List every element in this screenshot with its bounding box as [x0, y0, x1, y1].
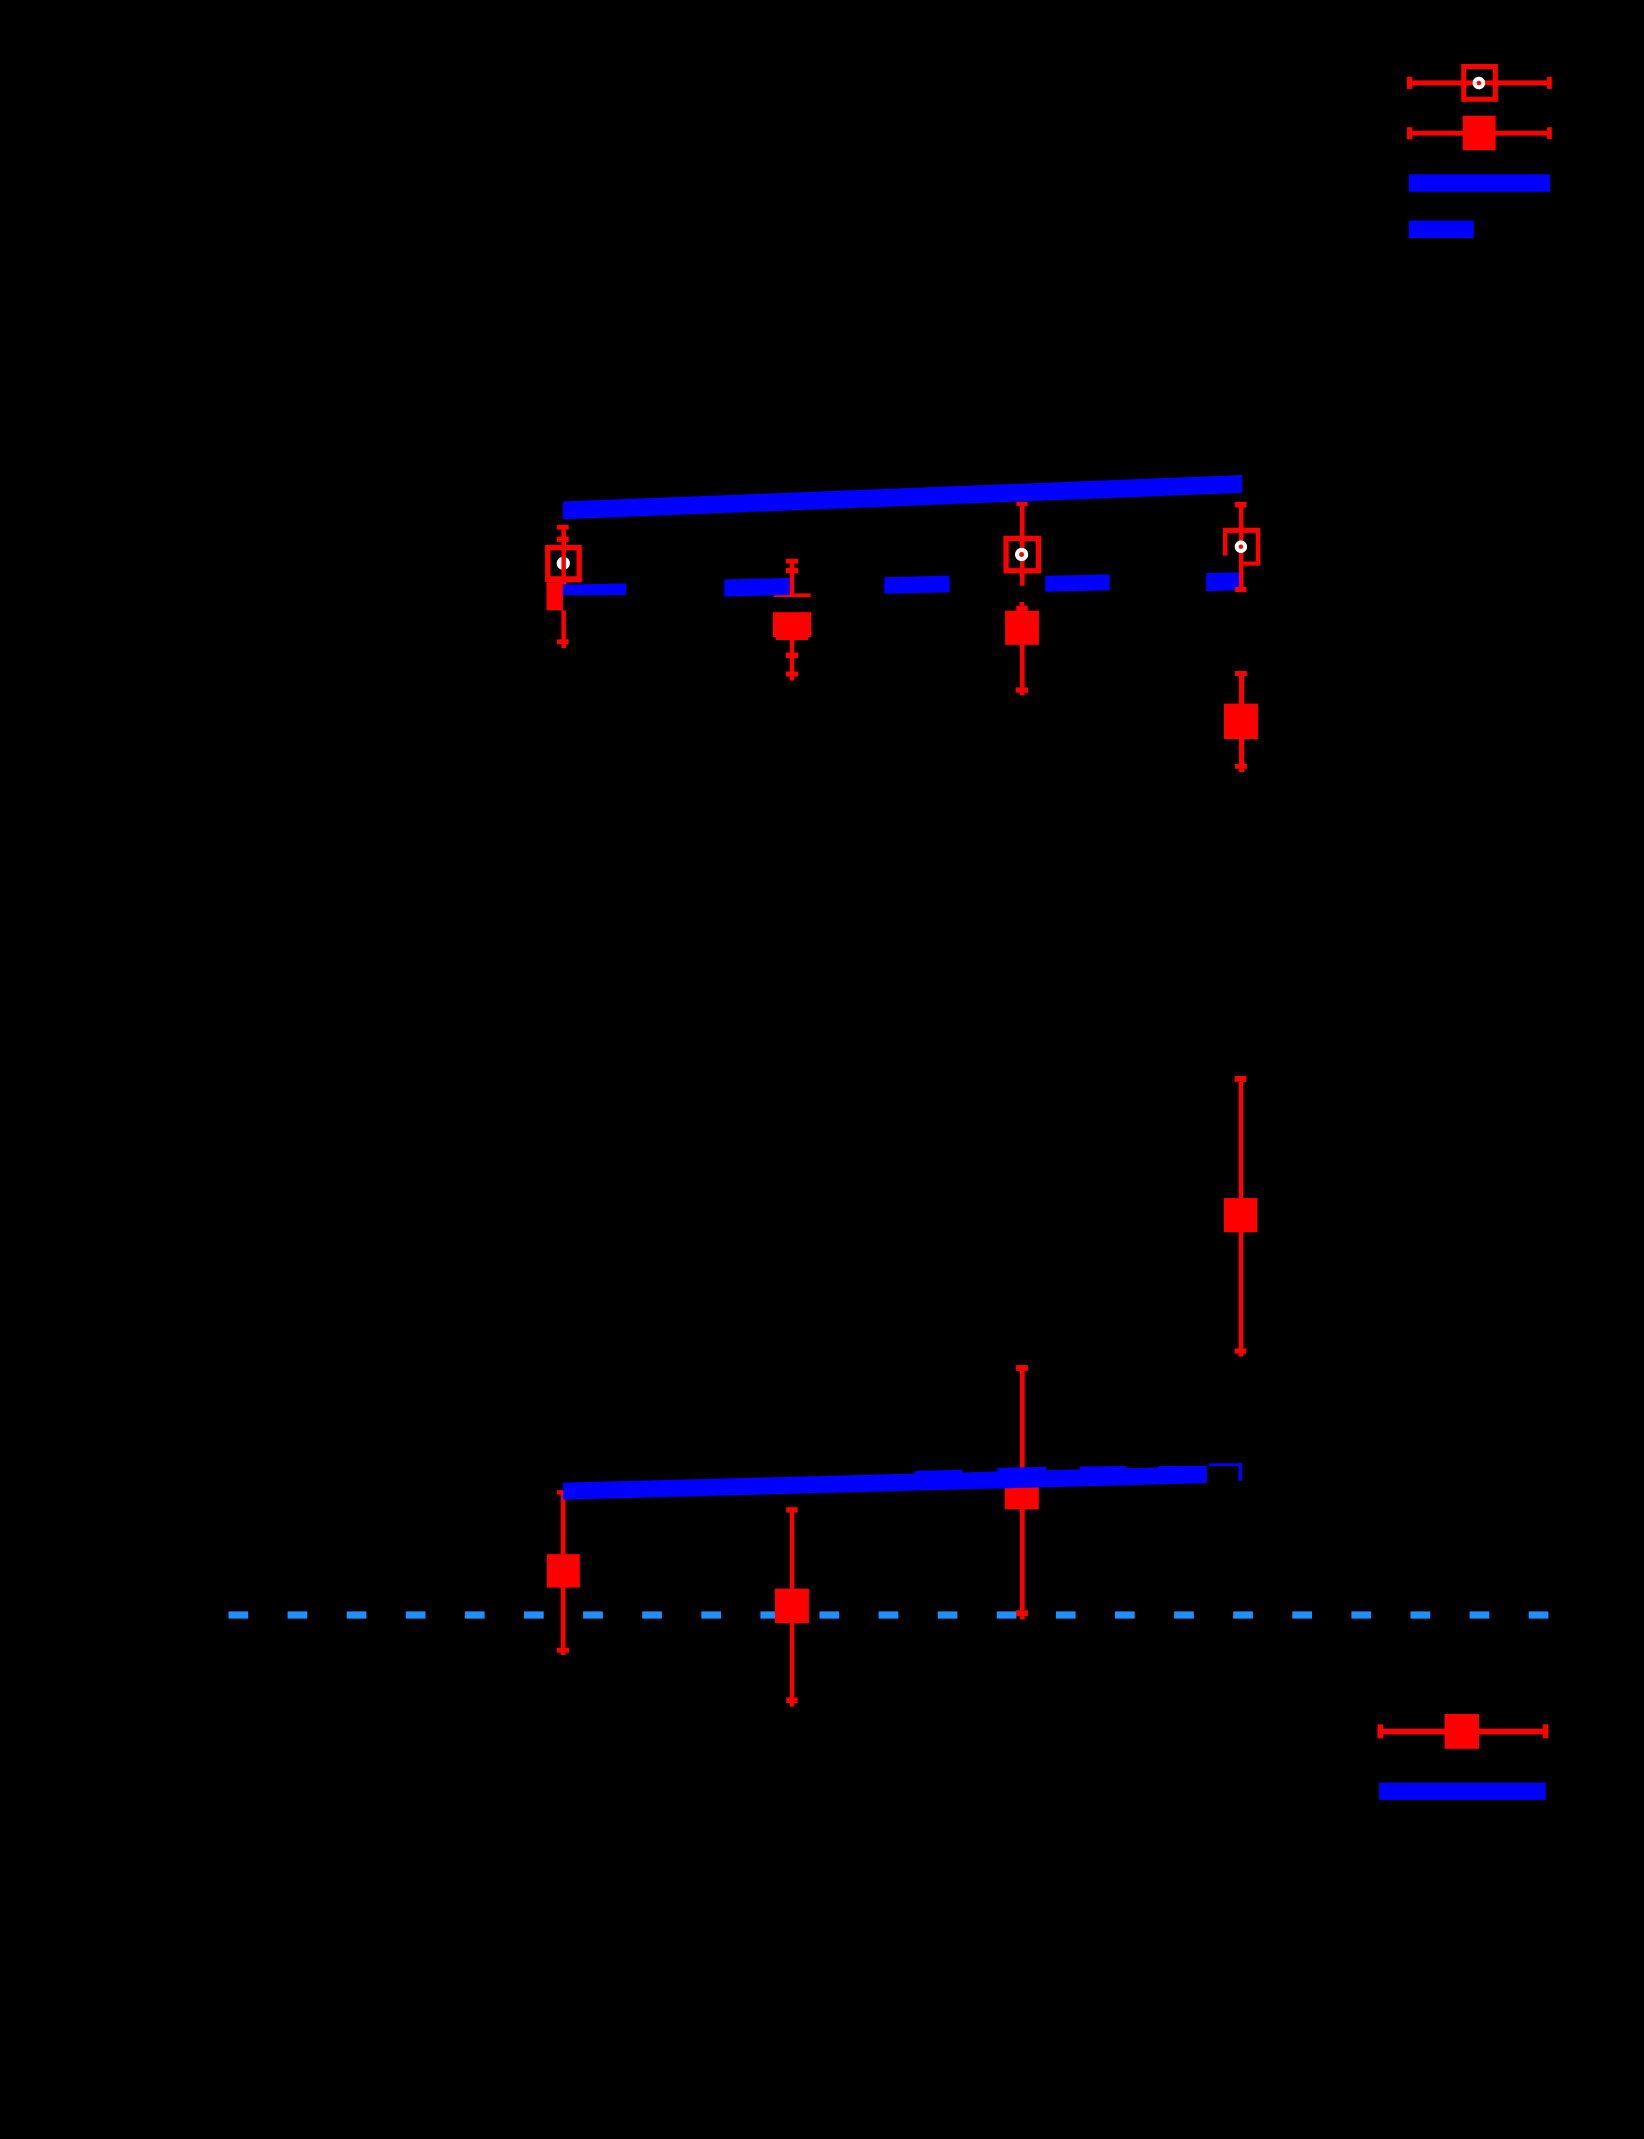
P2 top: inner bottom cap: [786, 653, 798, 658]
P1 bottom: filled square: [547, 1554, 580, 1587]
bottom solid blue line: [563, 1466, 1207, 1500]
P1 bottom: stub below cap: [561, 1653, 566, 1656]
P4 top: shaft: [1239, 507, 1243, 592]
bottom dashed blue line dash c: [1080, 1466, 1127, 1484]
P3 bottom: upper shaft: [1020, 1371, 1025, 1476]
P2 bottom: top cap: [786, 1507, 797, 1512]
legend2: left cap: [1407, 127, 1412, 139]
legend4: dashed blue line sample: [1409, 221, 1474, 239]
P4 top: sys-box right edge: [1256, 533, 1260, 566]
P2 top: filled square bottom strip: [776, 637, 808, 640]
legend1: open box marker: [1461, 64, 1498, 102]
P4 top: bottom cap over dash: [1235, 587, 1247, 592]
P4 top: sys-box top edge: [1223, 528, 1260, 533]
P3 bottom: bottom cap: [1016, 1610, 1028, 1616]
P2 bottom: upper shaft: [790, 1513, 794, 1589]
P2 bottom: bottom cap: [786, 1697, 797, 1703]
P4 top: filled-point lower shaft: [1239, 739, 1244, 764]
P4 top: top cap: [1235, 502, 1247, 507]
P1 top: sys-error open box: [545, 545, 582, 582]
P3 top: outer top cap: [1016, 502, 1027, 506]
P2 top: filled square: [773, 612, 811, 637]
P2 bottom: filled square: [775, 1589, 809, 1624]
P3 top: stub above filled-point cap: [1020, 602, 1025, 606]
P1 top: inner top cap: [557, 537, 569, 542]
P1 top: bottom cap: [557, 639, 569, 644]
P4 bottom: filled square: [1224, 1198, 1257, 1232]
P1 bottom: lower shaft: [561, 1588, 566, 1648]
bottom dashed blue line dash b: [997, 1467, 1046, 1485]
legend1: right cap: [1547, 77, 1552, 89]
P2 top: inner top cap: [786, 568, 798, 573]
P4 top: sys-box bottom edge remnant: [1243, 562, 1260, 566]
P4 top: filled square: [1224, 704, 1258, 739]
P3 top: lower shaft: [1020, 645, 1025, 688]
P4 bottom: stub below cap: [1239, 1354, 1244, 1357]
P3 top: upper shaft: [1020, 506, 1025, 536]
bottom dashed blue line dash d: [1158, 1466, 1207, 1484]
P4 top: filled-point top cap: [1235, 671, 1247, 676]
P1 bottom: top cap (behind blue line): [557, 1490, 569, 1494]
P1 bottom: upper shaft: [561, 1492, 566, 1554]
P3 top: sys-error open box: [1003, 536, 1041, 574]
P3 top: red dot in circle: [1019, 552, 1024, 557]
bottom legend: blue line sample: [1379, 1783, 1546, 1800]
bottom legend: filled square marker: [1445, 1714, 1479, 1749]
P1 top: white circle marker: [557, 557, 570, 570]
P3 top: filled square: [1005, 611, 1039, 645]
legend1: white circle: [1473, 77, 1486, 90]
P4 top: filled-point upper shaft: [1239, 676, 1244, 704]
P2 top: sys-box bottom edge remnant (wide thin line): [774, 593, 811, 597]
P1 bottom: bottom cap: [557, 1648, 569, 1653]
P3 bottom: lower shaft: [1020, 1509, 1025, 1610]
bottom dashed blue line final dash end block: [1238, 1463, 1242, 1481]
P2 top: outer top cap: [786, 559, 798, 564]
bottom dashed blue line dash a: [915, 1470, 963, 1488]
P4 top: red dot in circle: [1239, 545, 1243, 549]
legend2: right cap: [1547, 127, 1552, 139]
bottom legend: left cap: [1377, 1724, 1383, 1738]
P2 top: lower shaft: [790, 640, 794, 681]
top solid blue theory line: [563, 475, 1242, 519]
P4 top: filled-point bottom cap: [1235, 764, 1247, 769]
blue dashed line dash 4: [1045, 574, 1109, 591]
P3 top: bottom cap: [1016, 687, 1029, 692]
P2 top: upper shaft: [790, 564, 794, 595]
P3 top: filled-point top cap: [1016, 606, 1027, 611]
P4 top: white circle marker: [1235, 541, 1247, 553]
P4 top: sys-box left edge remnant: [1223, 533, 1227, 556]
P1 top: shaft stub below cap: [561, 644, 566, 648]
P4 bottom: top cap: [1235, 1076, 1247, 1082]
blue dashed line dash 3: [884, 576, 949, 594]
P2 top: outer bottom cap: [786, 672, 798, 677]
P3 bottom: top cap: [1016, 1365, 1028, 1371]
legend1: red dot: [1477, 81, 1482, 86]
bottom legend: horizontal error line: [1383, 1729, 1543, 1735]
legend2: filled square marker: [1463, 116, 1496, 151]
P4 bottom: lower shaft: [1239, 1232, 1244, 1348]
P4 top: shaft stub below cap: [1239, 769, 1244, 772]
P3 top: white circle marker: [1015, 548, 1028, 561]
light blue dashed unity line: [229, 1611, 1549, 1618]
P1 top: filled square visible left part: [547, 582, 563, 610]
legend1: left cap: [1407, 77, 1412, 89]
P3 top: shaft stub below cap: [1020, 693, 1025, 696]
legend2: horizontal error line: [1412, 131, 1547, 136]
legend3: solid blue line sample: [1409, 174, 1550, 192]
P3 bottom: stub below cap: [1020, 1616, 1025, 1619]
blue dashed line dash 5: [1206, 572, 1241, 591]
blue dashed line dash 2: [724, 578, 789, 597]
P2 bottom: stub below cap: [790, 1703, 794, 1707]
blue dashed line dash 1: [563, 583, 626, 595]
P4 bottom: upper shaft: [1239, 1082, 1244, 1198]
P4 bottom: bottom cap: [1235, 1349, 1247, 1354]
P3 top: shaft inside box: [1020, 536, 1025, 586]
bottom legend: right cap: [1543, 1724, 1548, 1738]
P1 top: lower shaft: [561, 610, 566, 644]
P3 bottom: filled square: [1005, 1476, 1039, 1510]
legend1: horizontal error line: [1412, 80, 1547, 85]
P2 bottom: lower shaft: [790, 1623, 794, 1697]
P1 top: upper shaft over circle: [561, 530, 566, 585]
bottom dashed blue line final dash clipped thin: [1209, 1463, 1239, 1466]
P1 top: outer top cap: [557, 525, 569, 530]
